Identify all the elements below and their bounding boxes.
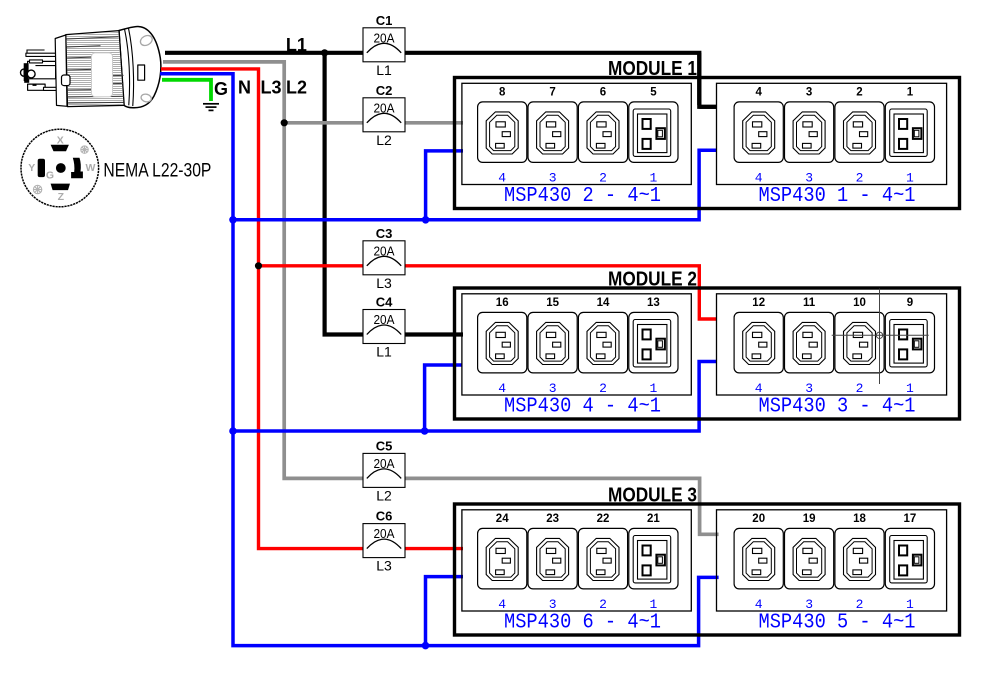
svg-text:22: 22 [597,513,610,525]
svg-text:2: 2 [856,170,864,185]
svg-text:15: 15 [546,297,559,309]
svg-text:W: W [86,162,96,174]
svg-text:20: 20 [752,513,765,525]
svg-text:2: 2 [599,381,607,396]
svg-text:MODULE 1: MODULE 1 [608,58,697,80]
svg-text:21: 21 [647,513,660,525]
svg-text:1: 1 [907,86,914,98]
svg-text:2: 2 [599,170,607,185]
svg-text:L3: L3 [376,558,392,574]
svg-text:G: G [46,169,54,181]
svg-text:3: 3 [805,597,813,612]
svg-text:C6: C6 [376,509,393,524]
svg-text:9: 9 [907,297,913,309]
svg-text:2: 2 [856,381,864,396]
svg-text:23: 23 [546,513,559,525]
svg-text:C1: C1 [376,13,393,28]
svg-text:L2: L2 [376,487,392,503]
svg-text:13: 13 [647,297,660,309]
svg-text:16: 16 [496,297,509,309]
svg-text:2: 2 [599,597,607,612]
svg-text:1: 1 [649,381,657,396]
svg-text:4: 4 [498,170,506,185]
svg-text:MSP430 4 - 4~1: MSP430 4 - 4~1 [504,396,661,419]
svg-text:14: 14 [597,297,610,309]
svg-text:Z: Z [58,191,65,203]
svg-text:5: 5 [650,86,657,98]
svg-text:C4: C4 [376,295,393,310]
svg-text:3: 3 [549,170,557,185]
svg-text:MSP430 5 - 4~1: MSP430 5 - 4~1 [759,612,916,635]
svg-text:4: 4 [498,381,506,396]
svg-text:L1: L1 [286,35,307,55]
svg-text:18: 18 [853,513,866,525]
svg-text:1: 1 [649,597,657,612]
svg-text:C3: C3 [376,226,393,241]
svg-text:4: 4 [755,381,763,396]
svg-text:24: 24 [496,513,509,525]
svg-text:3: 3 [806,86,812,98]
svg-text:2: 2 [856,597,864,612]
svg-text:MSP430 3 - 4~1: MSP430 3 - 4~1 [759,396,916,419]
svg-text:20A: 20A [374,30,395,45]
svg-text:17: 17 [904,513,917,525]
svg-text:8: 8 [499,86,506,98]
svg-text:11: 11 [803,297,816,309]
svg-text:MSP430 2 - 4~1: MSP430 2 - 4~1 [504,185,661,208]
svg-text:L3: L3 [261,77,282,97]
svg-text:20A: 20A [374,100,395,115]
svg-text:NEMA L22-30P: NEMA L22-30P [103,161,211,182]
svg-text:L2: L2 [376,132,392,148]
svg-text:4: 4 [755,170,763,185]
svg-text:1: 1 [906,597,914,612]
svg-text:4: 4 [755,597,763,612]
svg-text:MSP430 1 - 4~1: MSP430 1 - 4~1 [759,185,916,208]
svg-text:10: 10 [853,297,866,309]
svg-text:C5: C5 [376,438,393,453]
svg-text:12: 12 [752,297,765,309]
svg-text:L1: L1 [376,344,392,360]
svg-text:3: 3 [805,381,813,396]
svg-text:MODULE 2: MODULE 2 [608,269,697,291]
svg-text:7: 7 [549,86,555,98]
svg-text:6: 6 [600,86,606,98]
svg-text:20A: 20A [374,243,395,258]
svg-text:Y: Y [28,162,35,174]
svg-text:4: 4 [498,597,506,612]
svg-text:20A: 20A [374,312,395,327]
svg-text:4: 4 [755,86,762,98]
svg-text:G: G [214,79,228,99]
svg-text:1: 1 [649,170,657,185]
svg-text:N: N [238,77,251,97]
svg-text:20A: 20A [374,526,395,541]
svg-text:MSP430 6 - 4~1: MSP430 6 - 4~1 [504,612,661,635]
svg-text:L1: L1 [376,62,392,78]
svg-text:C2: C2 [376,83,393,98]
svg-text:L3: L3 [376,275,392,291]
svg-text:20A: 20A [374,456,395,471]
svg-text:L2: L2 [286,77,307,97]
svg-text:2: 2 [856,86,862,98]
svg-text:MODULE 3: MODULE 3 [608,485,697,507]
svg-text:3: 3 [549,381,557,396]
svg-text:1: 1 [906,381,914,396]
svg-text:X: X [57,135,64,147]
svg-text:19: 19 [803,513,816,525]
svg-text:1: 1 [906,170,914,185]
svg-text:3: 3 [805,170,813,185]
svg-text:3: 3 [549,597,557,612]
